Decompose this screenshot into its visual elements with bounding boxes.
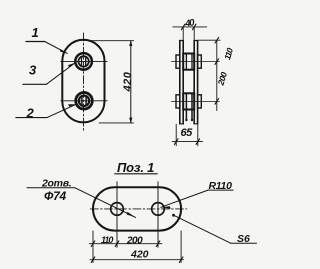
- svg-text:110: 110: [222, 46, 235, 61]
- svg-text:3: 3: [29, 63, 37, 78]
- svg-text:2отв.: 2отв.: [41, 178, 72, 190]
- svg-text:110: 110: [101, 235, 113, 245]
- svg-text:1: 1: [32, 25, 39, 40]
- svg-text:R110: R110: [209, 180, 233, 192]
- svg-text:420: 420: [130, 249, 149, 261]
- svg-text:Ф74: Ф74: [44, 189, 66, 203]
- svg-text:2: 2: [26, 106, 35, 121]
- svg-text:S6: S6: [237, 233, 250, 245]
- svg-text:65: 65: [181, 127, 194, 139]
- svg-text:Поз. 1: Поз. 1: [117, 160, 154, 175]
- svg-text:200: 200: [215, 71, 229, 88]
- svg-text:200: 200: [126, 236, 143, 247]
- svg-text:420: 420: [122, 71, 134, 92]
